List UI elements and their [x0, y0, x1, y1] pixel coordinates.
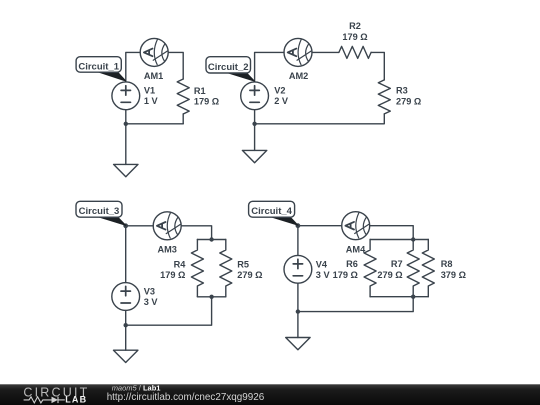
svg-text:V2: V2 — [274, 85, 285, 95]
svg-text:R6: R6 — [346, 259, 358, 269]
wire R3 bottom run — [255, 114, 385, 124]
svg-text:R1: R1 — [194, 86, 206, 96]
svg-text:1 V: 1 V — [144, 96, 159, 106]
svg-text:V1: V1 — [144, 85, 155, 95]
resistor R3 — [378, 80, 390, 114]
svg-text:AM4: AM4 — [346, 244, 366, 254]
wire top bar C3 — [197, 239, 225, 241]
svg-text:LAB: LAB — [65, 395, 87, 405]
wire AM4 right to parallel top — [370, 226, 414, 240]
voltage source V3 — [112, 283, 140, 311]
label callout Circuit_1 — [76, 57, 126, 81]
wire R2 to R3 top — [371, 52, 384, 80]
label callout Circuit_2 — [206, 57, 255, 81]
voltage source V2 — [241, 82, 269, 110]
voltage source V4 — [284, 255, 312, 283]
svg-text:AM3: AM3 — [157, 245, 176, 255]
node junction C4 bottom — [296, 309, 300, 313]
node bottom bar C3 — [209, 295, 213, 299]
ammeter AM4 — [342, 212, 370, 240]
wire bottom bar C4 — [370, 296, 428, 298]
wire AM1 right to R1 top — [168, 52, 183, 79]
node junction C2 — [252, 122, 256, 126]
wire bottom bar C3 — [197, 296, 225, 298]
svg-text:3 V: 3 V — [316, 270, 331, 280]
ammeter AM3 — [153, 212, 181, 240]
ground G4 — [286, 338, 310, 350]
label callout Circuit_4 — [249, 201, 298, 225]
node C4 left — [296, 223, 301, 228]
svg-text:AM2: AM2 — [289, 71, 308, 81]
wire parallel bottom to V4 bottom — [298, 297, 413, 312]
node top bar C4 — [411, 237, 415, 241]
wire AM2 right to R2 — [312, 51, 339, 53]
svg-text:2 V: 2 V — [274, 96, 289, 106]
svg-text:279 Ω: 279 Ω — [377, 270, 402, 280]
svg-text:179 Ω: 179 Ω — [342, 32, 367, 42]
wire parallel bottom to V3 bottom — [126, 297, 212, 325]
node bottom bar C4 — [411, 295, 415, 299]
svg-text:R2: R2 — [349, 21, 361, 31]
svg-text:Circuit_1: Circuit_1 — [78, 62, 119, 73]
svg-text:3 V: 3 V — [144, 297, 159, 307]
wire AM3 right to parallel top — [181, 226, 211, 240]
resistor R4 — [191, 240, 203, 297]
svg-text:R8: R8 — [441, 259, 453, 269]
ground G3 — [114, 350, 138, 362]
wire V2 top to AM2 left — [255, 52, 284, 81]
resistor R2 — [339, 46, 371, 58]
svg-text:179 Ω: 179 Ω — [160, 270, 185, 280]
resistor R6 — [364, 240, 376, 297]
wire top bar C4 — [370, 239, 428, 241]
svg-text:Circuit_3: Circuit_3 — [79, 206, 120, 217]
svg-text:179 Ω: 179 Ω — [333, 270, 358, 280]
ammeter AM2 — [284, 38, 312, 66]
wire node down to V3 top — [125, 226, 127, 283]
svg-text:279 Ω: 279 Ω — [237, 270, 262, 280]
node C3 left — [123, 223, 128, 228]
wire V4 bottom to ground — [297, 283, 299, 337]
svg-text:R4: R4 — [174, 259, 187, 269]
wire node to AM4 left — [298, 225, 342, 227]
svg-text:R3: R3 — [396, 86, 408, 96]
label callout Circuit_3 — [76, 201, 126, 225]
wire V1 top to AM1 left — [126, 52, 140, 81]
svg-text:V3: V3 — [144, 286, 155, 296]
wire node to AM3 left — [126, 225, 154, 227]
svg-text:Circuit_2: Circuit_2 — [208, 62, 249, 73]
resistor R5 — [220, 240, 232, 297]
svg-text:179 Ω: 179 Ω — [194, 97, 219, 107]
wire V1 bottom to ground — [125, 110, 127, 165]
node junction C1 — [124, 122, 128, 126]
svg-text:R7: R7 — [391, 259, 403, 269]
ammeter AM1 — [140, 38, 168, 66]
resistor R8 — [422, 240, 434, 297]
svg-text:AM1: AM1 — [144, 71, 163, 81]
ground G1 — [114, 164, 138, 176]
wire R1 bottom — [182, 114, 184, 124]
node junction C3 bottom — [124, 323, 128, 327]
node top bar C3 — [209, 237, 213, 241]
svg-text:R5: R5 — [237, 259, 249, 269]
voltage source V1 — [112, 82, 140, 110]
svg-text:http://circuitlab.com/cnec27xq: http://circuitlab.com/cnec27xqg9926 — [107, 392, 265, 403]
wire V3 bottom to ground — [125, 310, 127, 350]
svg-text:Circuit_4: Circuit_4 — [251, 206, 292, 217]
resistor R7 — [407, 240, 419, 297]
wire node down to V4 top — [297, 226, 299, 256]
svg-text:279 Ω: 279 Ω — [396, 96, 421, 106]
wire V2 bottom to ground — [254, 110, 256, 151]
ground G2 — [242, 150, 266, 162]
logo CIRCUIT LAB — [23, 386, 89, 405]
svg-text:379 Ω: 379 Ω — [441, 270, 466, 280]
svg-text:V4: V4 — [316, 260, 328, 270]
resistor R1 — [177, 79, 189, 114]
wire bottom run C1 — [126, 123, 183, 125]
